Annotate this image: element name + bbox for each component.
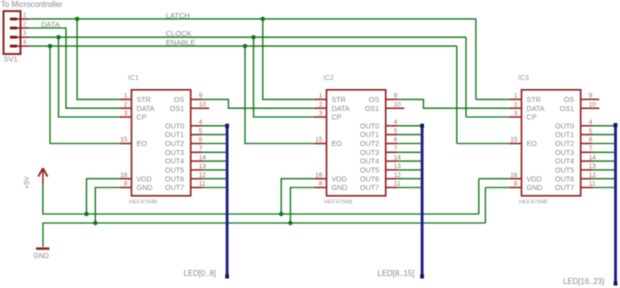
IC3 pin 8 GND stub <box>509 187 521 189</box>
wire net ENABLE drop to IC3 EO <box>456 46 458 143</box>
svg-text:6: 6 <box>199 137 203 144</box>
wire +5V rail <box>43 185 479 214</box>
svg-text:GND: GND <box>527 183 543 192</box>
IC1 pin 10 OS1 stub <box>191 107 210 109</box>
svg-text:STR: STR <box>332 95 346 104</box>
IC2 pin 3 CP stub <box>314 116 326 118</box>
svg-text:1: 1 <box>23 12 27 19</box>
IC2 pin 13 OUT5 stub <box>386 169 398 171</box>
wire LATCH branch to IC1 STR <box>77 19 119 100</box>
svg-text:OUT0: OUT0 <box>555 121 574 130</box>
svg-text:3: 3 <box>514 110 518 117</box>
IC2 pin 6 OUT2 stub <box>386 143 398 145</box>
svg-text:OUT0: OUT0 <box>165 121 184 130</box>
IC1 pin 12 OUT6 stub <box>191 178 203 180</box>
junction LATCH / IC1 branch <box>75 17 79 21</box>
wire net LATCH drop to IC3 STR <box>475 19 477 100</box>
wire GND rail <box>43 223 485 247</box>
svg-text:2: 2 <box>23 21 27 28</box>
svg-text:To Microcontroller: To Microcontroller <box>1 0 63 9</box>
IC1 pin 3 CP stub <box>119 116 131 118</box>
bus LED[0..8] <box>226 124 229 278</box>
wire IC2 OUT2 to bus <box>398 143 421 145</box>
wire LATCH branch to IC2 STR <box>263 19 315 100</box>
IC1 pin 5 OUT1 stub <box>191 134 203 136</box>
wire net CLOCK drop to IC3 CP <box>465 37 467 117</box>
svg-text:4: 4 <box>23 39 27 46</box>
svg-text:EO: EO <box>332 139 343 148</box>
svg-text:OS: OS <box>564 95 575 104</box>
IC2 pin 1 STR stub <box>314 98 326 100</box>
svg-text:STR: STR <box>137 95 151 104</box>
svg-text:OS: OS <box>174 95 185 104</box>
IC3 pin 6 OUT2 stub <box>581 143 593 145</box>
wire net LATCH horizontal <box>29 18 476 20</box>
connector SV1 pin 3 pad <box>10 36 17 39</box>
svg-text:14: 14 <box>199 154 207 161</box>
wire IC2 OUT1 to bus <box>398 134 421 136</box>
IC3 pin 4 OUT0 stub <box>581 125 593 127</box>
svg-text:10: 10 <box>589 101 597 108</box>
svg-text:OUT6: OUT6 <box>555 174 574 183</box>
junction +5V rail IC2 <box>279 212 283 216</box>
svg-text:OUT7: OUT7 <box>360 183 379 192</box>
svg-text:1: 1 <box>124 93 128 100</box>
IC3 pin 5 OUT1 stub <box>581 134 593 136</box>
svg-text:3: 3 <box>124 110 128 117</box>
wire IC3 OUT3 to bus <box>593 151 615 153</box>
svg-text:14: 14 <box>394 154 402 161</box>
svg-text:10: 10 <box>199 101 207 108</box>
IC3 pin 10 OS1 stub <box>581 107 600 109</box>
junction LATCH / IC2 branch <box>261 17 265 21</box>
svg-text:CLOCK: CLOCK <box>166 29 192 38</box>
IC3 pin 2 DATA stub <box>509 107 521 109</box>
svg-text:DATA: DATA <box>332 104 350 113</box>
IC2 pin 15 EO stub <box>314 143 326 145</box>
svg-text:STR: STR <box>527 95 541 104</box>
wire IC3 OUT1 to bus <box>593 134 615 136</box>
IC1 pin 9 OS stub <box>191 98 203 100</box>
IC2 pin 5 OUT1 stub <box>386 134 398 136</box>
svg-text:OUT5: OUT5 <box>360 166 379 175</box>
wire IC1 OUT0 to bus <box>203 125 226 127</box>
svg-text:OUT4: OUT4 <box>555 157 574 166</box>
IC1 pin 8 GND stub <box>119 187 131 189</box>
svg-text:16: 16 <box>510 172 518 179</box>
connector SV1 pin 2 pad <box>10 27 17 30</box>
svg-text:OUT4: OUT4 <box>165 157 184 166</box>
svg-text:9: 9 <box>589 93 593 100</box>
wire IC3 OUT4 to bus <box>593 160 615 162</box>
wire IC2 OUT6 to bus <box>398 178 421 180</box>
power +5V symbol <box>38 168 47 176</box>
junction GND rail IC2 <box>288 221 292 225</box>
svg-text:11: 11 <box>199 181 206 188</box>
IC2 pin 14 OUT4 stub <box>386 160 398 162</box>
wire net DATA from SV1 to IC1 DATA <box>29 28 119 108</box>
svg-text:12: 12 <box>394 172 402 179</box>
wire CLOCK branch to IC1 CP <box>59 37 120 117</box>
svg-text:7: 7 <box>589 146 593 153</box>
shift register IC2 HEF4794B <box>327 90 386 196</box>
svg-text:15: 15 <box>120 137 128 144</box>
svg-text:IC1: IC1 <box>128 75 139 82</box>
wire GND branch to IC2 GND <box>290 188 314 224</box>
svg-text:OS1: OS1 <box>170 104 184 113</box>
svg-text:OUT2: OUT2 <box>555 139 574 148</box>
shift register IC1 HEF4794B <box>132 90 191 196</box>
svg-text:13: 13 <box>199 163 207 170</box>
wire ENABLE into IC3 EO <box>457 143 510 145</box>
svg-text:OS1: OS1 <box>365 104 379 113</box>
junction ENABLE / IC2 branch <box>243 44 247 48</box>
wire IC1 OUT5 to bus <box>203 169 226 171</box>
svg-text:9: 9 <box>199 93 203 100</box>
svg-text:OUT2: OUT2 <box>165 139 184 148</box>
IC2 pin 16 VDD stub <box>314 178 326 180</box>
svg-text:OUT7: OUT7 <box>555 183 574 192</box>
svg-text:CP: CP <box>137 113 147 122</box>
svg-text:ENABLE: ENABLE <box>166 38 196 47</box>
svg-text:OUT6: OUT6 <box>165 174 184 183</box>
wire ENABLE branch to IC1 EO <box>50 46 119 143</box>
svg-text:HEF4794B: HEF4794B <box>519 199 547 205</box>
svg-text:3: 3 <box>23 30 27 37</box>
junction GND rail IC1 <box>93 221 97 225</box>
svg-text:EO: EO <box>137 139 148 148</box>
IC3 pin 14 OUT4 stub <box>581 160 593 162</box>
svg-text:4: 4 <box>394 119 398 126</box>
IC1 pin 4 OUT0 stub <box>191 125 203 127</box>
svg-text:9: 9 <box>394 93 398 100</box>
wire +5V rail riser to IC3 VDD <box>478 179 480 214</box>
svg-text:LED[8..15]: LED[8..15] <box>378 269 415 278</box>
svg-text:OS: OS <box>369 95 380 104</box>
wire +5V into IC3 VDD <box>479 178 510 180</box>
ground symbol <box>36 247 49 249</box>
IC1 pin 14 OUT4 stub <box>191 160 203 162</box>
wire IC1 OUT4 to bus <box>203 160 226 162</box>
svg-text:15: 15 <box>315 137 323 144</box>
junction CLOCK / IC1 branch <box>56 35 60 39</box>
wire IC2 OUT5 to bus <box>398 169 421 171</box>
svg-text:8: 8 <box>124 181 128 188</box>
wire IC3 OUT0 to bus <box>593 125 615 127</box>
svg-text:12: 12 <box>589 172 597 179</box>
svg-text:3: 3 <box>319 110 323 117</box>
svg-text:2: 2 <box>124 101 128 108</box>
IC3 pin 13 OUT5 stub <box>581 169 593 171</box>
svg-text:LED[16..23]: LED[16..23] <box>563 277 604 286</box>
wire GND rail riser to IC3 GND <box>484 188 486 224</box>
svg-text:IC3: IC3 <box>518 75 529 82</box>
svg-text:12: 12 <box>199 172 207 179</box>
IC2 pin 11 OUT7 stub <box>386 187 398 189</box>
wire GND into IC3 GND <box>485 187 509 189</box>
wire IC1 OUT3 to bus <box>203 151 226 153</box>
wire LATCH into IC3 STR <box>476 98 509 100</box>
shift register IC3 HEF4794B <box>522 90 581 196</box>
wire +5V branch to IC1 VDD <box>87 179 120 214</box>
IC1 pin 11 OUT7 stub <box>191 187 203 189</box>
IC2 pin 10 OS1 stub <box>386 107 405 109</box>
IC2 pin 8 GND stub <box>314 187 326 189</box>
wire GND branch to IC1 GND <box>95 188 119 224</box>
svg-text:VDD: VDD <box>527 174 542 183</box>
svg-text:7: 7 <box>199 146 203 153</box>
svg-text:6: 6 <box>589 137 593 144</box>
svg-text:15: 15 <box>510 137 518 144</box>
IC1 pin 2 DATA stub <box>119 107 131 109</box>
svg-text:6: 6 <box>394 137 398 144</box>
svg-text:OUT3: OUT3 <box>555 148 574 157</box>
svg-text:OUT2: OUT2 <box>360 139 379 148</box>
svg-text:13: 13 <box>589 163 597 170</box>
svg-text:OUT1: OUT1 <box>360 130 379 139</box>
svg-text:+5V: +5V <box>24 176 31 189</box>
IC2 pin 4 OUT0 stub <box>386 125 398 127</box>
bus LED[16..23] <box>614 124 617 286</box>
svg-text:IC2: IC2 <box>323 75 334 82</box>
IC1 pin 13 OUT5 stub <box>191 169 203 171</box>
IC3 pin 11 OUT7 stub <box>581 187 593 189</box>
svg-text:GND: GND <box>33 253 49 260</box>
svg-text:4: 4 <box>589 119 593 126</box>
wire IC2 OUT0 to bus <box>398 125 421 127</box>
svg-text:DATA: DATA <box>527 104 545 113</box>
wire IC3 OUT2 to bus <box>593 143 615 145</box>
wire IC3 OUT7 to bus <box>593 187 615 189</box>
junction CLOCK / IC2 branch <box>251 35 255 39</box>
svg-text:VDD: VDD <box>137 174 152 183</box>
svg-text:EO: EO <box>527 139 538 148</box>
IC3 pin 16 VDD stub <box>509 178 521 180</box>
svg-text:5: 5 <box>589 128 593 135</box>
svg-text:CP: CP <box>332 113 342 122</box>
wire +5V branch to IC2 VDD <box>281 179 314 214</box>
svg-text:13: 13 <box>394 163 402 170</box>
svg-text:SV1: SV1 <box>4 55 18 64</box>
svg-text:OUT6: OUT6 <box>360 174 379 183</box>
wire ENABLE branch to IC2 EO <box>245 46 314 143</box>
svg-text:1: 1 <box>514 93 518 100</box>
junction +5V rail IC1 <box>84 212 88 216</box>
svg-text:LED[0..8]: LED[0..8] <box>184 269 217 278</box>
wire IC1 OUT1 to bus <box>203 134 226 136</box>
svg-text:VDD: VDD <box>332 174 347 183</box>
svg-text:OUT7: OUT7 <box>165 183 184 192</box>
IC1 pin 15 EO stub <box>119 143 131 145</box>
wire CLOCK branch to IC2 CP <box>254 37 315 117</box>
svg-text:HEF4794B: HEF4794B <box>324 199 352 205</box>
IC3 pin 15 EO stub <box>509 143 521 145</box>
bus LED[8..15] <box>421 124 424 278</box>
svg-text:LATCH: LATCH <box>166 11 190 20</box>
wire IC2 OUT7 to bus <box>398 187 421 189</box>
wire IC2 OUT4 to bus <box>398 160 421 162</box>
svg-text:2: 2 <box>514 101 518 108</box>
wire IC3 OUT5 to bus <box>593 169 615 171</box>
svg-text:16: 16 <box>120 172 128 179</box>
connector SV1 pin 4 pad <box>10 45 17 48</box>
svg-text:10: 10 <box>394 101 402 108</box>
IC2 pin 2 DATA stub <box>314 107 326 109</box>
IC3 pin 1 STR stub <box>509 98 521 100</box>
svg-text:11: 11 <box>394 181 401 188</box>
IC3 pin 7 OUT3 stub <box>581 151 593 153</box>
svg-text:OUT1: OUT1 <box>555 130 574 139</box>
svg-text:OUT5: OUT5 <box>165 166 184 175</box>
svg-text:OS1: OS1 <box>560 104 574 113</box>
wire cascade IC2 OS to IC3 DATA <box>398 99 510 108</box>
svg-text:11: 11 <box>589 181 596 188</box>
svg-text:1: 1 <box>319 93 323 100</box>
svg-text:16: 16 <box>315 172 323 179</box>
svg-text:OUT3: OUT3 <box>360 148 379 157</box>
svg-text:7: 7 <box>394 146 398 153</box>
svg-text:CP: CP <box>527 113 537 122</box>
svg-text:OUT0: OUT0 <box>360 121 379 130</box>
connector SV1 pin 1 pad <box>10 18 17 21</box>
svg-text:OUT3: OUT3 <box>165 148 184 157</box>
wire IC2 OUT3 to bus <box>398 151 421 153</box>
svg-text:HEF4794B: HEF4794B <box>129 199 157 205</box>
junction ENABLE / IC1 branch <box>48 44 52 48</box>
svg-text:2: 2 <box>319 101 323 108</box>
IC1 pin 7 OUT3 stub <box>191 151 203 153</box>
svg-text:5: 5 <box>394 128 398 135</box>
svg-text:14: 14 <box>589 154 597 161</box>
svg-text:GND: GND <box>332 183 348 192</box>
svg-text:OUT4: OUT4 <box>360 157 379 166</box>
svg-text:OUT5: OUT5 <box>555 166 574 175</box>
wire net CLOCK horizontal <box>29 36 466 38</box>
svg-text:8: 8 <box>514 181 518 188</box>
svg-text:8: 8 <box>319 181 323 188</box>
IC2 pin 7 OUT3 stub <box>386 151 398 153</box>
svg-text:DATA: DATA <box>137 104 155 113</box>
IC2 pin 12 OUT6 stub <box>386 178 398 180</box>
svg-text:OUT1: OUT1 <box>165 130 184 139</box>
IC3 pin 12 OUT6 stub <box>581 178 593 180</box>
wire IC1 OUT6 to bus <box>203 178 226 180</box>
connector SV1 <box>4 11 21 54</box>
IC1 pin 6 OUT2 stub <box>191 143 203 145</box>
wire CLOCK into IC3 CP <box>466 116 509 118</box>
IC1 pin 16 VDD stub <box>119 178 131 180</box>
svg-text:5: 5 <box>199 128 203 135</box>
svg-text:GND: GND <box>137 183 153 192</box>
wire IC3 OUT6 to bus <box>593 178 615 180</box>
svg-text:4: 4 <box>199 119 203 126</box>
wire IC1 OUT7 to bus <box>203 187 226 189</box>
svg-text:DATA: DATA <box>41 20 60 29</box>
wire cascade IC1 OS to IC2 DATA <box>203 99 315 108</box>
IC3 pin 9 OS stub <box>581 98 600 100</box>
IC3 pin 3 CP stub <box>509 116 521 118</box>
wire IC1 OUT2 to bus <box>203 143 226 145</box>
IC2 pin 9 OS stub <box>386 98 398 100</box>
IC1 pin 1 STR stub <box>119 98 131 100</box>
wire net ENABLE horizontal <box>29 45 457 47</box>
